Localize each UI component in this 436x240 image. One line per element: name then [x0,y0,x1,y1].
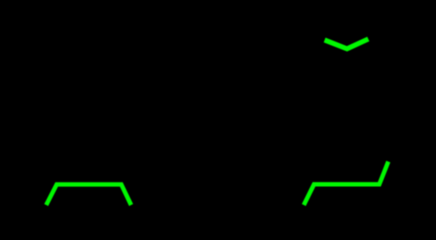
wire step stroke bottom right [304,162,389,205]
wire V-stroke top right [325,39,369,49]
wire trapezoid stroke bottom left [46,184,131,205]
